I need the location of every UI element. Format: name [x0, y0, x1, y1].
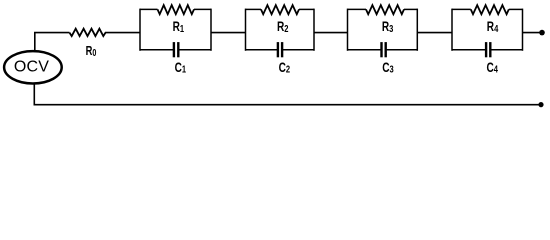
- node: block 4 left vertical: [451, 9, 453, 51]
- wire: block 2 top-right: [299, 8, 314, 10]
- node: block 4 right vertical: [522, 9, 524, 51]
- wire: block 1 bottom-right: [179, 49, 211, 51]
- resistor R1: [158, 5, 195, 34]
- capacitor C4: [485, 42, 499, 75]
- wire: block 4 top-right: [509, 8, 523, 10]
- resistor R4: [471, 5, 509, 34]
- node: block 2 left vertical: [245, 9, 247, 51]
- node: block 1 left vertical: [139, 9, 141, 51]
- wire: block 3 top-right: [404, 8, 417, 10]
- svg-text:R3: R3: [382, 18, 393, 34]
- wire: block 4 to positive terminal: [523, 32, 541, 34]
- wire: block 3 bottom-right: [387, 49, 418, 51]
- svg-text:R1: R1: [173, 18, 184, 34]
- svg-text:C2: C2: [279, 59, 290, 75]
- node: positive terminal dot: [539, 30, 545, 36]
- wire: block 1 bottom-left: [140, 49, 173, 51]
- resistor R3: [366, 5, 404, 34]
- node: block 3 right vertical: [416, 9, 418, 51]
- wire: block 2 bottom-left: [246, 49, 278, 51]
- capacitor C3: [380, 42, 393, 75]
- wire: OCV top stub to rail: [35, 33, 70, 52]
- wire: OCV bottom stub: [33, 83, 35, 104]
- resistor R2: [261, 5, 299, 34]
- capacitor C1: [173, 42, 186, 75]
- wire: block 2 top-left: [246, 8, 262, 10]
- wire: block 3 top-left: [348, 8, 367, 10]
- svg-text:R0: R0: [86, 45, 97, 59]
- resistor R0: [70, 29, 106, 59]
- wire: block 4 top-left: [452, 8, 471, 10]
- node: block 3 left vertical: [347, 9, 349, 51]
- wire: bottom rail: [34, 104, 541, 106]
- wire: block 2 bottom-right: [283, 49, 314, 51]
- wire: rail into block 1: [105, 32, 140, 34]
- wire: block 1 top-left: [140, 8, 158, 10]
- svg-text:C4: C4: [487, 59, 499, 75]
- wire: block 1 top-right: [194, 8, 211, 10]
- node: block 1 right vertical: [210, 9, 212, 51]
- svg-text:OCV: OCV: [14, 59, 49, 76]
- node: negative terminal dot: [538, 102, 543, 107]
- OCV source V1: [4, 51, 62, 83]
- svg-text:R2: R2: [277, 18, 288, 34]
- svg-text:C1: C1: [175, 59, 186, 75]
- wire: block 4 bottom-left: [452, 49, 485, 51]
- wire: rail into block 3: [314, 32, 348, 34]
- wire: rail into block 2: [211, 32, 246, 34]
- wire: block 3 bottom-left: [348, 49, 381, 51]
- svg-text:C3: C3: [382, 59, 393, 75]
- node: block 2 right vertical: [313, 9, 315, 51]
- wire: block 4 bottom-right: [491, 49, 522, 51]
- wire: rail into block 4: [417, 32, 452, 34]
- svg-text:R4: R4: [487, 18, 499, 34]
- capacitor C2: [277, 42, 290, 75]
